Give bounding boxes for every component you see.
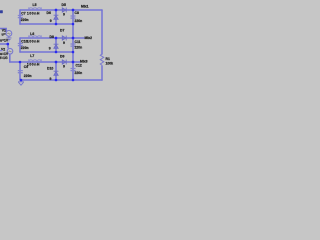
svg-text:9: 9: [63, 12, 65, 16]
wire vert cap chain: [72, 10, 74, 80]
capacitor C9 plates: [18, 71, 23, 73]
node dot row2-d: [55, 37, 58, 40]
wire bottom rail: [21, 79, 102, 81]
wire row2: [20, 37, 84, 39]
svg-text:220n: 220n: [75, 45, 83, 49]
svg-text:f=1G: f=1G: [0, 56, 8, 60]
svg-text:D9: D9: [60, 54, 64, 58]
source V2: [7, 48, 13, 54]
svg-text:Mix2: Mix2: [85, 36, 93, 40]
node dot row3-d: [55, 61, 58, 64]
node dot mid1-d: [55, 23, 58, 26]
svg-text:D5: D5: [62, 3, 66, 7]
svg-text:9: 9: [49, 47, 51, 51]
svg-text:100nH: 100nH: [27, 63, 40, 67]
wire vert x20 stage2: [19, 38, 21, 52]
svg-text:C12: C12: [76, 63, 82, 67]
node dot row1-d: [55, 9, 58, 12]
wire row3: [10, 61, 80, 63]
wire source B to row3: [9, 55, 11, 62]
svg-text:220n: 220n: [75, 19, 83, 23]
node dot row3-c: [72, 61, 75, 64]
wire vert x102 upper: [101, 10, 103, 54]
wire vert x56 stage2: [55, 38, 57, 52]
svg-text:9: 9: [50, 77, 52, 81]
svg-text:100nH: 100nH: [27, 40, 40, 44]
wire vert x56 stage1: [55, 10, 57, 24]
diode row2: [62, 36, 66, 40]
capacitor bottom plates: [71, 69, 76, 71]
capacitor mid2 plates: [71, 44, 76, 46]
node dot rail-gnd: [20, 79, 23, 82]
svg-text:L6: L6: [30, 32, 34, 36]
svg-text:u=1V: u=1V: [0, 39, 9, 43]
svg-text:220n: 220n: [21, 46, 29, 50]
ground under V1: [6, 36, 11, 41]
wire row1: [20, 9, 102, 11]
inductor L6: [29, 35, 41, 37]
net label 1 at left edge: [0, 10, 3, 13]
wire vert x20 stage3: [19, 62, 21, 80]
wire vert x102 lower: [101, 66, 103, 80]
source V1: [6, 31, 12, 37]
svg-text:D10: D10: [47, 66, 53, 70]
diode vert D6: [54, 16, 58, 20]
ground: [18, 81, 24, 86]
wire vert x56 stage3: [55, 62, 57, 80]
svg-text:9: 9: [63, 41, 65, 45]
svg-text:220n: 220n: [21, 18, 29, 22]
node dot mid2-d: [55, 51, 58, 54]
wire vert x20 stage1: [19, 10, 21, 24]
node dot row2-c: [72, 37, 75, 40]
svg-text:9: 9: [50, 19, 52, 23]
diode row3: [62, 60, 66, 64]
svg-text:u=: u=: [2, 32, 6, 36]
svg-text:Mix3: Mix3: [80, 59, 88, 63]
svg-text:C7: C7: [21, 12, 25, 16]
diode D5 row1: [62, 8, 66, 12]
capacitor C7 plates: [18, 16, 23, 18]
svg-text:100k: 100k: [106, 62, 114, 66]
svg-text:220n: 220n: [75, 71, 83, 75]
svg-text:D8: D8: [50, 35, 54, 39]
inductor L5: [29, 7, 41, 9]
diode vert mid: [54, 45, 58, 49]
wire source B feed: [0, 44, 8, 48]
svg-text:C9: C9: [24, 65, 28, 69]
svg-text:220n: 220n: [24, 74, 32, 78]
svg-text:L7: L7: [30, 54, 34, 58]
svg-text:C8: C8: [75, 11, 79, 15]
resistor R 100k: [100, 54, 103, 66]
inductor L7: [29, 59, 41, 61]
svg-text:C11: C11: [75, 40, 81, 44]
wire row mid2: [20, 51, 73, 53]
svg-text:Mix1: Mix1: [81, 4, 89, 8]
svg-text:R1: R1: [106, 57, 110, 61]
diode vert bottom: [54, 72, 58, 76]
capacitor stage2 plates: [18, 44, 23, 46]
svg-text:D7: D7: [60, 28, 64, 32]
capacitor C8 plates: [71, 16, 76, 18]
svg-text:L5: L5: [33, 3, 37, 7]
node dot rail-c: [72, 79, 75, 82]
svg-text:D6: D6: [47, 11, 51, 15]
node dot srcB: [6, 43, 9, 46]
node dot row3-l: [19, 61, 22, 64]
node dot mid1-c: [72, 23, 75, 26]
node dot mid2-c: [72, 51, 75, 54]
node dot rail-d: [55, 79, 58, 82]
wire source A feed: [0, 29, 6, 31]
node dot row1-c: [72, 9, 75, 12]
svg-text:100nH: 100nH: [27, 12, 40, 16]
wire row mid1: [20, 23, 73, 25]
svg-text:9: 9: [63, 64, 65, 68]
tick left edge mid: [0, 50, 3, 52]
